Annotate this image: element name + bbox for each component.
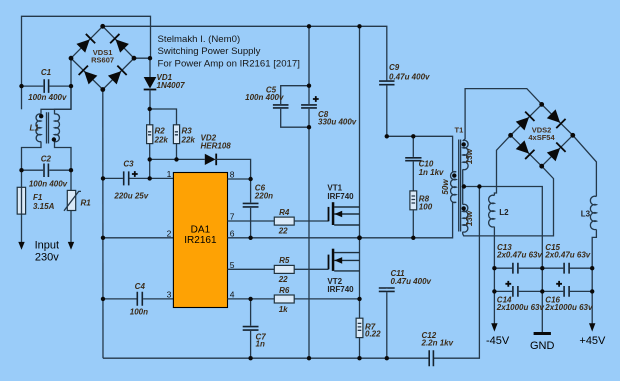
capacitor C16 2x1000u 63v [542,290,563,292]
svg-text:2x1000u 63v: 2x1000u 63v [544,303,593,312]
wire pin8 stub [228,178,251,180]
junction VDS2 AC top corner [539,102,544,107]
wire pin6 VS to half-bridge mid [228,237,360,239]
svg-text:L1: L1 [30,123,40,132]
junction C7 on minus rail [248,356,252,360]
svg-text:L2: L2 [499,208,509,217]
svg-text:C4: C4 [135,282,146,291]
svg-text:C2: C2 [41,154,52,163]
wire secondary bottom terminal to VDS2 bottom [463,166,554,236]
diode VDS1 arm left-top [76,34,95,53]
junction C8 line on minus rail [307,356,311,360]
fuse F1 [17,187,25,214]
node +45V output arrow [589,323,595,331]
diode VDS2 arm bottom-right [547,143,566,162]
diode VDS2 arm left-top [515,112,534,131]
diode VD1 1N4007 [149,58,151,77]
wire VDS2 right to L3 [573,135,597,196]
wire center tap to GND rail [463,187,543,334]
junction C6 bottom on VS line [248,236,252,240]
capacitor C13 2x0.47u 63v [494,267,512,269]
resistor R4 22 [274,217,294,225]
junction T1 center tap [462,184,466,188]
wire pin2 [103,237,173,239]
wire T1 secondary top terminal to VDS2 top [463,89,542,141]
T1 core [459,140,461,232]
wire pin3 with capacitor C4 100n [103,298,137,300]
junction VD1 anode node [148,56,152,60]
diode VDS1 arm right-top [110,34,129,53]
svg-text:8: 8 [230,169,235,179]
junction C10 top node [411,134,415,138]
svg-text:100: 100 [419,202,433,211]
svg-text:C9: C9 [389,63,400,72]
wire AC1: bridge left corner down through L1 left winding to F1 [41,58,71,114]
capacitor C15 2x0.47u 63v [542,267,563,269]
transistor VT1 IRF740 [334,207,359,225]
svg-text:22: 22 [278,275,288,284]
wire pin7 to R4 [228,220,275,222]
junction VDS1 AC right corner [132,56,137,61]
svg-text:C1: C1 [41,68,52,77]
T1 secondary winding top 13w [463,140,468,169]
junction R2/R3 top node [148,107,152,111]
svg-text:L3: L3 [581,209,591,218]
svg-text:R1: R1 [81,199,92,208]
junction C2 left [19,168,23,172]
wire top-left loop from F1 line up and across to VD1 branch [22,16,151,86]
wire VT2 drain to VS node [359,238,361,299]
capacitor C12 2.2n 1kv Y-cap [429,350,433,366]
junction VDS2 minus left corner [508,133,513,138]
svg-text:For Power Amp on IR2161 [2017]: For Power Amp on IR2161 [2017] [158,58,300,69]
svg-text:GND: GND [530,340,555,352]
svg-text:100n: 100n [130,308,148,317]
svg-text:0.47u 400v: 0.47u 400v [391,277,432,286]
junction C15 right on +45V rail [590,266,594,270]
junction C1 right / AC1 line [69,84,73,88]
wire bridge right corner to VD1 node [134,57,151,59]
svg-text:220n: 220n [254,191,273,200]
diode VDS2 arm top-right [547,109,566,128]
capacitor C5 100n 400v [281,86,309,104]
svg-text:22k: 22k [154,136,169,145]
svg-text:IRF740: IRF740 [327,192,354,201]
transistor VT2 IRF740 [334,253,359,271]
resistor R5 22 [274,265,294,273]
svg-text:HER108: HER108 [201,141,232,150]
input arrow left [18,242,24,250]
wire bridge bottom down the left DC-minus vertical [102,90,104,359]
svg-text:Switching Power Supply: Switching Power Supply [158,46,261,57]
capacitor C14 2x1000u 63v [494,290,512,292]
svg-text:1n 1kv: 1n 1kv [419,168,444,177]
junction R3 bottom node [174,157,178,161]
svg-text:T1: T1 [455,126,464,135]
svg-text:2x0.47u 63v: 2x0.47u 63v [496,250,542,259]
svg-text:4: 4 [230,290,235,300]
capacitor C10 1n 1kv [412,136,414,157]
wire +310V rail from bridge top to C9 corner [103,26,387,80]
junction VT2 source / R6 node [357,297,361,301]
wire bottom DC-minus rail to C12 [103,357,429,359]
capacitor C8 330u 400v [301,105,317,108]
resistor R3 22k [173,125,179,144]
diode VDS1 arm bottom-left [79,66,98,85]
junction Vcc to pin1 node [148,176,152,180]
ground GND symbol [534,332,551,335]
svg-text:+45V: +45V [579,335,606,347]
svg-text:7: 7 [230,211,235,221]
wire secondary center connector [462,169,464,204]
wire C5/C8 branch from +310V rail [308,26,310,104]
IC DA1 IR2161 [173,173,227,308]
junction C5/C8 branch on +310V rail [307,24,311,28]
junction C14 right on GND rail [540,289,544,293]
wire half-bridge vertical VT1 drain [359,26,361,238]
wire Vcc node down to pin1 [149,159,151,178]
svg-text:F1: F1 [33,193,43,202]
svg-text:3.15A: 3.15A [33,202,55,211]
svg-text:22k: 22k [181,136,196,145]
svg-text:50w: 50w [441,179,450,195]
svg-text:2x0.47u 63v: 2x0.47u 63v [544,250,590,259]
svg-text:C3: C3 [123,160,134,169]
resistor R8 100 [410,191,417,210]
wire C12 right to riser up to transformer center tap [433,187,479,359]
wire AC2: C1 right down through L1 right winding to R1 [70,86,72,109]
svg-text:DA1: DA1 [191,225,211,236]
svg-text:IR2161: IR2161 [184,235,217,246]
capacitor C9 0.47u 400v [379,81,394,85]
wire R2/R3 branch [150,109,177,125]
svg-text:R2: R2 [155,126,166,135]
svg-text:0.22: 0.22 [365,330,381,339]
svg-text:230v: 230v [35,252,59,264]
svg-text:2: 2 [167,228,172,238]
wire VDS2 left to L2 [494,135,510,195]
svg-text:1: 1 [167,169,172,179]
svg-text:VT1: VT1 [327,183,342,192]
junction C16 right on +45V rail [590,289,594,293]
inductor L2 [489,195,495,227]
input arrow right [68,242,74,250]
inductor L3 [590,196,596,229]
wire R2/R3 bottoms to VD2 row [150,144,205,160]
junction VDS1 AC left corner [69,56,74,61]
svg-text:100n 400v: 100n 400v [28,93,67,102]
svg-text:IRF740: IRF740 [327,285,354,294]
svg-text:-45V: -45V [486,335,510,347]
junction C3 minus on DC-minus bus [101,176,105,180]
junction C12 riser on tap wire [477,184,481,188]
svg-text:Input: Input [35,240,59,252]
svg-text:100n 400v: 100n 400v [29,180,68,189]
junction node A cap divider mid [385,134,389,138]
varistor R1 [67,190,75,210]
junction C14 left on -45V rail [492,289,496,293]
junction C2 right [69,168,73,172]
wire VS to T1 primary bottom [360,202,453,238]
T1 primary winding 50w [451,172,457,203]
svg-text:Stelmakh I. (Nem0): Stelmakh I. (Nem0) [158,34,241,45]
wire pin5 to R5 [228,268,275,270]
svg-text:2x1000u 63v: 2x1000u 63v [496,303,545,312]
node -45V output arrow [491,323,497,331]
resistor R6 1k [274,295,294,303]
svg-text:22: 22 [278,226,288,235]
svg-text:0.47u 400v: 0.47u 400v [389,72,430,81]
junction C5 bottom branch [307,125,311,129]
svg-text:RS607: RS607 [91,56,114,65]
svg-text:220u 25v: 220u 25v [113,191,148,200]
capacitor C7 1n [250,299,252,326]
junction pin3 on DC-minus bus [101,297,105,301]
bridge rectifier VDS2 [511,104,573,166]
capacitor C2 [44,164,48,178]
resistor R7 0.22 [359,299,361,318]
svg-text:2.2n 1kv: 2.2n 1kv [421,339,454,348]
junction C1 left / AC2 line [19,84,23,88]
svg-text:1n: 1n [256,339,265,348]
capacitor C3 220u 25v [103,177,123,179]
svg-text:1N4007: 1N4007 [157,81,186,90]
svg-text:13w: 13w [465,210,474,226]
svg-text:100n 400v: 100n 400v [245,93,284,102]
capacitor C6 220n bootstrap [250,179,252,203]
svg-text:3: 3 [167,290,172,300]
junction VDS2 plus right corner [570,133,575,138]
resistor R2 22k [147,125,153,144]
junction C7 top on pin4 line [248,297,252,301]
junction VS half-bridge mid node [357,235,362,240]
junction C13 right on GND rail [540,266,544,270]
junction R7 on minus rail [357,356,361,360]
junction VDS1 plus output (top corner) [100,24,105,29]
wire node A to T1 primary [387,136,453,172]
capacitor C11 0.47u 400v [379,288,395,291]
junction VDS1 minus output (bottom corner) [100,87,105,92]
bridge rectifier VDS1 [71,26,134,89]
junction VDS2 AC bottom corner [539,164,544,169]
junction R2 bottom / Vcc node [148,157,152,161]
junction C13 left on -45V rail [492,266,496,270]
diode VDS2 arm left-bottom [515,140,534,159]
svg-text:1k: 1k [279,305,288,314]
wire pin4 to R6 [228,298,275,300]
junction pin2 on DC-minus bus [101,236,105,240]
svg-text:4xSF54: 4xSF54 [528,133,555,142]
svg-text:6: 6 [230,228,235,238]
junction pin8 / VB node [248,177,252,181]
svg-text:13w: 13w [465,148,474,164]
junction VT1 drain on +310V rail [357,24,361,28]
capacitor C1 [44,79,48,93]
svg-text:R4: R4 [279,208,290,217]
junction C11 on minus rail [385,356,389,360]
svg-text:R6: R6 [279,286,290,295]
svg-text:R5: R5 [279,256,290,265]
inductor L1 common-mode choke [36,114,41,142]
diode VD2 HER108 [205,154,216,165]
svg-text:5: 5 [230,260,235,270]
svg-text:330u 400v: 330u 400v [318,118,357,127]
svg-text:R3: R3 [182,126,193,135]
diode VDS1 arm bottom-right [108,66,127,85]
junction C5 top branch [307,84,311,88]
T1 secondary winding bottom 13w [463,204,468,232]
junction R8 bottom on VS wire [411,236,415,240]
